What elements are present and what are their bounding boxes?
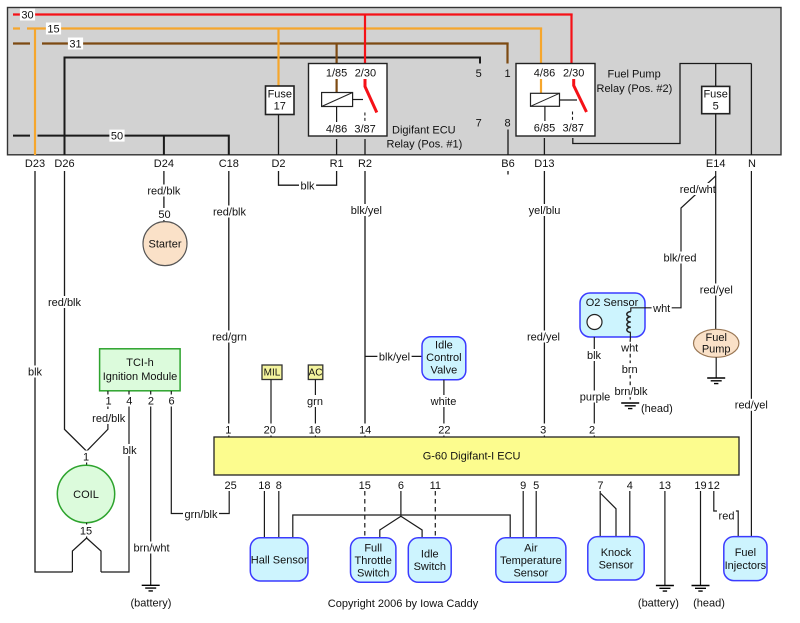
wire fuse17 to D2 — [278, 115, 280, 156]
svg-text:Hall Sensor: Hall Sensor — [251, 554, 308, 566]
relay K2 pin label 4/86 — [534, 68, 555, 80]
svg-text:MIL: MIL — [264, 368, 281, 379]
svg-text:Switch: Switch — [414, 561, 446, 573]
terminal D26 — [54, 158, 74, 170]
svg-text:5: 5 — [533, 480, 539, 492]
wire label red/blk (C18) — [212, 206, 248, 219]
terminal D2 — [271, 158, 285, 170]
svg-text:15: 15 — [47, 23, 59, 35]
relay K1 switch contact (red) — [365, 79, 377, 122]
svg-text:D23: D23 — [25, 158, 45, 170]
wire ECU pin 7 pair to knock sensor — [600, 491, 616, 537]
power bus box — [8, 8, 782, 155]
ECU G-60 Digifant-I — [214, 437, 739, 475]
svg-text:blk/red: blk/red — [663, 252, 696, 264]
svg-text:B6: B6 — [501, 158, 514, 170]
terminal R1 — [330, 158, 344, 170]
wire label grn (AC) — [306, 395, 325, 408]
relay K2 pin label 6/85 — [534, 123, 555, 135]
wire label blk/red — [662, 252, 698, 265]
svg-text:brn/wht: brn/wht — [133, 542, 169, 554]
TCI-h pin 1 wire (red/blk dashed) to coil — [87, 391, 108, 451]
svg-text:20: 20 — [264, 424, 276, 436]
wire R2 branch to idle control valve — [365, 355, 422, 357]
svg-text:R2: R2 — [358, 158, 372, 170]
svg-text:blk/yel: blk/yel — [379, 351, 410, 363]
wire N to fuel injectors (red/yel) — [750, 171, 752, 537]
wire D23 (blk) to coil ground branch — [35, 171, 72, 572]
terminal R2 — [358, 158, 372, 170]
svg-text:5: 5 — [713, 101, 719, 113]
idle switch — [408, 538, 451, 583]
svg-text:1: 1 — [504, 68, 510, 80]
terminal B6 stub — [507, 171, 509, 175]
relay K1 pin label 1/85 — [326, 68, 347, 80]
svg-text:D13: D13 — [534, 158, 554, 170]
svg-text:brn/blk: brn/blk — [614, 386, 648, 398]
svg-text:4: 4 — [126, 395, 132, 407]
terminal N — [748, 158, 756, 170]
MIL indicator — [262, 365, 282, 380]
relay K1 Digifant ECU relay box — [309, 64, 388, 137]
relay K1 pin label 2/30 — [355, 68, 376, 80]
svg-text:50: 50 — [111, 131, 123, 143]
knock sensor — [588, 537, 644, 580]
wire ECU pin 6 split to throttle and idle switches — [380, 491, 422, 538]
wire label blk (D2-R1) — [299, 180, 316, 193]
full throttle switch — [351, 538, 396, 583]
svg-text:31: 31 — [69, 38, 81, 50]
O2 sensor heater coil — [627, 308, 646, 340]
svg-text:50: 50 — [158, 209, 170, 221]
terminal E14 — [706, 158, 726, 170]
svg-text:Relay (Pos. #1): Relay (Pos. #1) — [387, 139, 463, 151]
bus wire 50 (starter) — [13, 135, 229, 155]
wire fuse5 to E14 — [715, 114, 717, 156]
terminal C18 — [219, 158, 239, 170]
relay K2 switch contact (red) — [573, 79, 587, 121]
wire label red/grn (C18) — [211, 331, 249, 344]
svg-text:blk: blk — [123, 445, 138, 457]
wire AC to ECU pin 16 (grn) — [314, 380, 316, 438]
relay K2 pin label 3/87 — [562, 123, 583, 135]
svg-text:2: 2 — [589, 424, 595, 436]
svg-text:red/blk: red/blk — [92, 413, 126, 425]
terminal D13 — [534, 158, 554, 170]
svg-text:Throttle: Throttle — [355, 555, 392, 567]
TCI-h ignition module U1 — [100, 349, 181, 391]
wire D26 column — [64, 57, 66, 156]
wire label red (injectors) — [717, 510, 736, 523]
wire ECU pin 19 to head ground — [700, 491, 702, 586]
fuse F17 — [266, 86, 295, 115]
svg-text:grn: grn — [307, 396, 323, 408]
svg-text:Valve: Valve — [431, 365, 458, 377]
wire label blk/yel (valve branch) — [377, 351, 411, 364]
svg-text:Idle: Idle — [435, 340, 453, 352]
ECU pin label 1 — [224, 424, 233, 437]
TCI-h pin 2 wire (brn/wht) to battery ground — [150, 391, 152, 585]
svg-text:blk: blk — [300, 180, 315, 192]
ignition coil — [57, 465, 114, 522]
svg-text:12: 12 — [708, 480, 720, 492]
svg-text:R1: R1 — [330, 158, 344, 170]
svg-text:yel/blu: yel/blu — [529, 205, 561, 217]
wire C18 (red/blk, red/grn) to ECU pin 1 — [228, 171, 230, 437]
wire ECU pin 18 to hall sensor — [263, 491, 265, 538]
svg-text:30: 30 — [21, 9, 33, 21]
node label 50 (starter) — [157, 208, 172, 221]
wire ECU pin 11 (dashed) to idle switch — [434, 491, 436, 538]
bus wire 31 (brown ground) — [13, 42, 509, 44]
coil pin 15 wire split — [72, 523, 101, 572]
svg-text:white: white — [430, 396, 457, 408]
fuse F5 — [702, 86, 730, 113]
ECU pin label 25 — [224, 480, 236, 492]
TCI-h pin label 4 — [125, 395, 134, 408]
ECU pin label 11 — [430, 480, 441, 492]
svg-text:Fuel: Fuel — [705, 332, 726, 344]
relay K1 name label — [387, 125, 463, 151]
pin label 8 — [504, 118, 510, 130]
svg-text:Temperature: Temperature — [500, 555, 562, 567]
svg-text:COIL: COIL — [73, 489, 99, 501]
svg-text:Ignition Module: Ignition Module — [103, 371, 178, 383]
node label 15 — [46, 23, 61, 36]
svg-text:Starter: Starter — [148, 239, 181, 251]
wire R2 (blk/yel) to ECU pin 14 — [364, 171, 366, 437]
pin label 1 — [504, 68, 510, 80]
terminal B6 — [501, 158, 514, 170]
ECU pin label 7 — [597, 480, 603, 492]
fuel pump ground — [707, 357, 725, 383]
relay K2 pin label 2/30 — [563, 68, 584, 80]
svg-text:Knock: Knock — [601, 547, 632, 559]
svg-text:1: 1 — [83, 451, 89, 463]
svg-text:red/blk: red/blk — [48, 297, 82, 309]
bus wire 15 (orange ignition) — [13, 29, 542, 156]
svg-text:red: red — [719, 510, 735, 522]
svg-text:4/86: 4/86 — [534, 68, 555, 80]
fuel pump — [694, 329, 739, 357]
svg-text:Digifant ECU: Digifant ECU — [392, 125, 456, 137]
hall sensor — [250, 538, 308, 581]
svg-text:Fuel: Fuel — [735, 547, 756, 559]
wire label brn/blk — [613, 385, 649, 398]
wire valve to ECU pin 22 (white) — [443, 380, 445, 437]
wire label blk (D23) — [27, 366, 44, 379]
air temperature sensor — [496, 538, 566, 583]
wire label red/yel (D13) — [526, 331, 562, 344]
relay K2 fuel pump relay box — [516, 64, 595, 137]
wire D13 (yel/blu, red/yel) to ECU pin 3 — [543, 171, 545, 437]
wire D26 (red/blk) to coil pin 1 — [65, 171, 87, 451]
coil pin 1 label — [81, 451, 90, 466]
svg-text:red/blk: red/blk — [213, 206, 247, 218]
svg-text:Relay (Pos. #2): Relay (Pos. #2) — [597, 83, 673, 95]
wire pin8 to B6 — [507, 130, 509, 156]
wire K2 3/87 to fuse F5 and N — [573, 64, 752, 156]
wire bus drop verticals (overlay) — [279, 14, 572, 87]
wire label blk (TCI pin4) — [121, 444, 138, 457]
wire R2 stub — [364, 139, 366, 155]
TCI-h pin label 1 — [104, 395, 113, 408]
svg-text:(battery): (battery) — [638, 598, 679, 610]
wire ECU pin 8 to hall sensor — [278, 491, 280, 538]
pin label 5 — [476, 68, 482, 80]
svg-text:red/grn: red/grn — [212, 331, 247, 343]
svg-text:Sensor: Sensor — [599, 560, 634, 572]
ECU pin label 20 — [262, 424, 277, 437]
svg-text:6: 6 — [169, 395, 175, 407]
svg-text:25: 25 — [224, 480, 236, 492]
wire E14 to fuel pump (red/yel) — [715, 176, 717, 331]
O2 heater ground wire (wht, brn, brn/blk dashed) — [629, 340, 631, 404]
ECU pin label 14 — [358, 424, 373, 437]
wire ECU pin 15 (dashed) to full throttle switch — [364, 491, 366, 538]
svg-text:3/87: 3/87 — [562, 123, 583, 135]
svg-text:AC: AC — [309, 368, 323, 379]
wire hall sensor shield to air temp sensor — [293, 515, 510, 538]
ECU pin label 22 — [437, 424, 452, 437]
svg-text:brn: brn — [622, 364, 638, 376]
svg-text:2/30: 2/30 — [355, 68, 376, 80]
ground (head) at O2 — [621, 403, 673, 415]
TCI-h pin label 2 — [146, 395, 155, 408]
svg-text:blk: blk — [587, 350, 602, 362]
ECU pin label 4 — [627, 480, 633, 492]
ECU pin label 15 — [359, 480, 371, 492]
svg-text:Sensor: Sensor — [513, 567, 548, 579]
TCI-h pin 6 wire (grn/blk) to ECU pin 25 — [171, 391, 229, 514]
wire ECU pin 9 to air temp sensor — [522, 491, 524, 538]
terminal D24 — [154, 158, 174, 170]
wire label white — [429, 395, 458, 408]
wire label blk/yel (R2) — [349, 204, 383, 217]
svg-text:E14: E14 — [706, 158, 726, 170]
wire label red/blk (TCI pin1) — [91, 412, 127, 425]
svg-text:1: 1 — [105, 395, 111, 407]
svg-text:Injectors: Injectors — [725, 560, 767, 572]
svg-text:18: 18 — [258, 480, 270, 492]
svg-text:Control: Control — [426, 352, 461, 364]
relay K1 pin label 3/87 — [354, 124, 375, 136]
svg-text:red/yel: red/yel — [735, 400, 768, 412]
node label 50 — [109, 130, 124, 143]
ECU pin label 9 — [520, 480, 526, 492]
svg-text:D26: D26 — [54, 158, 74, 170]
svg-text:Air: Air — [524, 542, 538, 554]
svg-text:13: 13 — [659, 480, 671, 492]
wire label red/blk (D26) — [47, 296, 83, 309]
relay K2 name label — [597, 69, 673, 96]
svg-text:4/86: 4/86 — [326, 124, 347, 136]
svg-text:5: 5 — [476, 68, 482, 80]
wire ECU pin 12 (red) to fuel injectors — [714, 491, 738, 537]
wire label purple — [578, 391, 612, 404]
svg-text:8: 8 — [276, 480, 282, 492]
svg-text:Full: Full — [364, 542, 382, 554]
ground (battery) right — [638, 586, 679, 610]
svg-text:wht: wht — [652, 303, 670, 315]
svg-text:red/yel: red/yel — [700, 284, 733, 296]
svg-text:9: 9 — [520, 480, 526, 492]
O2 signal wire (blk, purple) to ECU pin 2 — [593, 337, 595, 437]
svg-text:4: 4 — [627, 480, 633, 492]
fuel injectors — [724, 537, 767, 581]
wire ECU pin 4 to knock sensor — [629, 491, 631, 537]
ECU pin label 5 — [533, 480, 539, 492]
TCI-h pin 4 wire (blk) — [101, 391, 129, 572]
svg-text:Fuse: Fuse — [703, 89, 727, 101]
svg-text:blk/yel: blk/yel — [351, 205, 382, 217]
svg-text:(head): (head) — [641, 403, 673, 415]
pin label 7 — [476, 118, 482, 130]
svg-text:19: 19 — [694, 480, 706, 492]
copyright note — [328, 598, 479, 610]
wire label red/yel (fuel pump) — [698, 284, 734, 297]
wire D2 to R1 (blk) — [279, 171, 337, 185]
wire label blk (O2) — [586, 349, 603, 362]
svg-text:1: 1 — [225, 424, 231, 436]
ECU pin label 8 — [276, 480, 282, 492]
svg-text:red/yel: red/yel — [527, 331, 560, 343]
wire label wht — [652, 302, 672, 315]
wire ECU pin 5 to air temp sensor — [535, 491, 537, 538]
svg-text:Fuel Pump: Fuel Pump — [608, 69, 661, 81]
wire label red/yel (N) — [733, 399, 769, 412]
wire label wht (O2 heater) — [620, 342, 640, 355]
svg-text:blk: blk — [28, 366, 43, 378]
coil pin 15 label — [78, 525, 93, 538]
ECU pin label 16 — [307, 424, 322, 437]
svg-text:11: 11 — [430, 480, 441, 492]
ECU pin label 13 — [659, 480, 671, 492]
svg-text:Pump: Pump — [702, 344, 731, 356]
O2 sensor element (circle) — [587, 315, 602, 330]
svg-text:grn/blk: grn/blk — [184, 509, 218, 521]
wire black feed to relay pin 5 — [65, 57, 481, 64]
svg-text:14: 14 — [359, 424, 371, 436]
svg-text:(head): (head) — [693, 598, 725, 610]
svg-text:3/87: 3/87 — [354, 124, 375, 136]
svg-text:red/blk: red/blk — [147, 185, 181, 197]
AC switch — [308, 365, 323, 380]
wire D24 (red/blk) to starter — [163, 171, 165, 222]
svg-text:D2: D2 — [271, 158, 285, 170]
relay K1 pin label 4/86 — [326, 124, 347, 136]
svg-text:Idle: Idle — [421, 549, 439, 561]
svg-text:17: 17 — [274, 101, 286, 113]
svg-text:TCI-h: TCI-h — [126, 357, 154, 369]
svg-text:Copyright 2006 by Iowa Caddy: Copyright 2006 by Iowa Caddy — [328, 598, 479, 610]
svg-text:2/30: 2/30 — [563, 68, 584, 80]
svg-text:7: 7 — [476, 118, 482, 130]
svg-text:16: 16 — [309, 424, 321, 436]
svg-text:wht: wht — [620, 343, 638, 355]
node label 31 — [68, 38, 83, 51]
relay K1 coil — [322, 79, 363, 122]
wire label yel/blu (D13) — [527, 204, 562, 217]
node label 30 — [20, 9, 35, 22]
svg-text:15: 15 — [80, 525, 92, 537]
svg-text:15: 15 — [359, 480, 371, 492]
wire label brn/wht (TCI pin2) — [132, 542, 171, 555]
wire E14 to O2 sensor (red/wht, blk/red, wht) — [631, 171, 716, 312]
O2 sensor — [580, 293, 645, 337]
svg-text:3: 3 — [540, 424, 546, 436]
svg-text:2: 2 — [148, 395, 154, 407]
wire ECU pin 13 to battery ground — [664, 491, 666, 586]
svg-text:D24: D24 — [154, 158, 174, 170]
svg-text:6/85: 6/85 — [534, 123, 555, 135]
ECU pin label 18 — [258, 480, 270, 492]
ground (battery) left — [131, 585, 172, 609]
svg-text:purple: purple — [580, 391, 611, 403]
ECU pin label 12 — [708, 480, 720, 492]
ECU pin label 2 — [587, 424, 596, 437]
ground (head) right — [692, 586, 725, 610]
svg-text:6: 6 — [398, 480, 404, 492]
ECU pin label 19 — [694, 480, 706, 492]
svg-text:Switch: Switch — [357, 567, 389, 579]
bus wire 30 (red battery +) — [13, 13, 573, 15]
svg-text:7: 7 — [597, 480, 603, 492]
svg-text:C18: C18 — [219, 158, 239, 170]
wire label red/wht — [678, 183, 717, 196]
svg-text:Fuse: Fuse — [268, 89, 292, 101]
svg-text:(battery): (battery) — [131, 598, 172, 610]
svg-text:1/85: 1/85 — [326, 68, 347, 80]
wire label brn — [620, 363, 639, 376]
svg-text:G-60 Digifant-I ECU: G-60 Digifant-I ECU — [423, 451, 521, 463]
wire label grn/blk — [183, 508, 219, 521]
svg-text:red/wht: red/wht — [680, 184, 716, 196]
TCI-h pin label 6 — [167, 395, 176, 408]
svg-text:N: N — [748, 158, 756, 170]
wire R1 stub — [336, 139, 338, 155]
idle control valve — [422, 337, 466, 380]
wire D13 stub — [543, 138, 545, 155]
svg-text:8: 8 — [504, 118, 510, 130]
wire MIL to ECU pin 20 — [270, 380, 272, 438]
terminal D23 — [25, 158, 45, 170]
ECU pin label 6 — [398, 480, 404, 492]
ECU pin label 3 — [539, 424, 548, 437]
starter motor M — [143, 222, 187, 266]
svg-text:22: 22 — [438, 424, 450, 436]
wire label red/blk (D24) — [146, 185, 182, 198]
relay K2 coil — [531, 79, 578, 121]
